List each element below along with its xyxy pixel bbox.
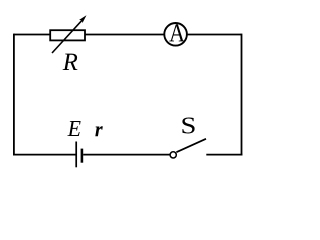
ammeter U1 circle — [164, 23, 187, 46]
wire bottom left — [13, 154, 76, 156]
wire bottom middle — [83, 154, 170, 156]
label r — [95, 126, 102, 136]
label S — [182, 117, 194, 133]
wire left — [13, 34, 15, 156]
wire top — [14, 34, 242, 36]
label E — [67, 121, 80, 136]
resistor R box — [50, 30, 85, 40]
battery long plate — [75, 142, 77, 168]
wire bottom right — [206, 154, 242, 156]
ammeter label A — [169, 24, 184, 41]
switch S blade — [176, 139, 206, 152]
wire right — [241, 34, 243, 156]
battery short plate — [81, 149, 84, 163]
switch S contact circle — [170, 152, 176, 158]
label R — [63, 54, 78, 70]
resistor R arrow — [52, 20, 83, 53]
